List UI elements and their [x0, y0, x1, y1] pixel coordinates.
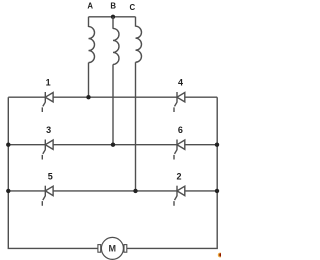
- thyristor 5: [42, 186, 53, 206]
- inductor phase C winding: [136, 26, 142, 62]
- motor M body: [101, 237, 123, 259]
- motor right brush: [124, 245, 127, 253]
- wire left border: [8, 97, 98, 248]
- node rail3 / left border junction: [6, 189, 10, 193]
- wire phase C lower lead to rail 3: [135, 62, 137, 191]
- motor left brush: [98, 245, 101, 253]
- node rail2 / right border junction: [215, 143, 219, 147]
- wire phase B upper lead: [112, 17, 114, 29]
- node rail2 / phase B junction: [111, 143, 115, 147]
- svg-text:M: M: [108, 243, 116, 253]
- svg-text:A: A: [87, 2, 93, 11]
- thyristor 6: [174, 140, 185, 160]
- inductor phase B winding: [113, 28, 119, 64]
- wire top bus A-B-C: [89, 16, 136, 18]
- node rail3 / phase C junction: [133, 189, 137, 193]
- wire phase B lower lead to rail 2: [112, 64, 114, 144]
- node rail3 / right border junction: [215, 189, 219, 193]
- wire right border: [127, 97, 218, 248]
- svg-text:2: 2: [176, 172, 181, 182]
- inductor phase A winding: [89, 27, 95, 63]
- wire phase C upper lead: [135, 17, 137, 27]
- svg-text:4: 4: [178, 78, 183, 88]
- thyristor 1: [42, 92, 53, 112]
- wire rail 1: [8, 96, 217, 98]
- svg-text:6: 6: [178, 125, 183, 135]
- svg-text:C: C: [129, 3, 135, 12]
- node rail1 / phase A junction: [86, 95, 90, 99]
- thyristor 2: [174, 186, 185, 206]
- stray red watermark dot at right edge: [218, 253, 223, 258]
- svg-text:1: 1: [46, 78, 51, 88]
- node B junction dot: [111, 15, 115, 19]
- thyristor 3: [42, 140, 53, 160]
- node rail2 / left border junction: [6, 143, 10, 147]
- svg-text:B: B: [110, 2, 116, 11]
- wire rail 3: [8, 190, 217, 192]
- wire phase A lower lead to rail 1: [88, 63, 90, 98]
- svg-text:3: 3: [46, 125, 51, 135]
- wire phase A upper lead: [88, 17, 90, 27]
- thyristor 4: [174, 92, 185, 112]
- wire rail 2: [8, 144, 217, 146]
- svg-text:5: 5: [48, 172, 53, 182]
